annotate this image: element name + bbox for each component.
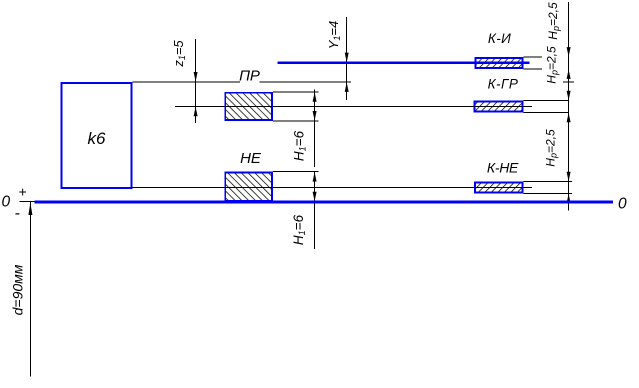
svg-text:Н1=6: Н1=6 xyxy=(291,214,307,245)
svg-text:+: + xyxy=(18,184,26,200)
svg-text:К-И: К-И xyxy=(488,31,511,46)
svg-text:z1=5: z1=5 xyxy=(171,40,187,68)
svg-text:Y1=4: Y1=4 xyxy=(326,21,342,50)
svg-text:Н1=6: Н1=6 xyxy=(292,130,308,161)
svg-text:К-НЕ: К-НЕ xyxy=(487,160,519,176)
svg-text:Нр=2,5: Нр=2,5 xyxy=(544,129,559,167)
svg-text:-: - xyxy=(15,205,20,222)
svg-text:НЕ: НЕ xyxy=(240,150,262,167)
svg-text:Нр=2,5: Нр=2,5 xyxy=(545,46,560,84)
svg-text:k6: k6 xyxy=(88,129,107,148)
svg-text:0: 0 xyxy=(618,196,627,213)
svg-text:d=90мм: d=90мм xyxy=(10,264,26,315)
svg-text:Нр=2,5: Нр=2,5 xyxy=(546,2,561,40)
svg-text:0: 0 xyxy=(2,194,11,211)
svg-text:ПР: ПР xyxy=(239,68,260,85)
svg-text:К-ГР: К-ГР xyxy=(488,77,519,92)
